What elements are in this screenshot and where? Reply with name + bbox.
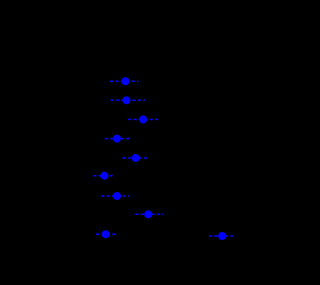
error bar 9 [96,233,118,235]
error bar 10 [209,235,234,237]
error bar 5 [122,157,148,159]
error bar 1 [110,80,138,82]
data point marker 1 [121,77,129,85]
data point marker 10 [218,232,226,240]
data point marker 7 [113,192,121,200]
error bar 7 [101,195,130,197]
data point marker 8 [144,210,152,218]
error bar 6 [93,175,114,177]
data point marker 3 [139,115,147,123]
error bar 2 [111,99,146,101]
data point marker 9 [102,230,110,238]
data point marker 5 [132,154,140,162]
data point marker 4 [113,135,121,143]
error bar 3 [128,118,159,120]
error bar 8 [135,213,163,215]
error bar 4 [105,138,130,140]
data point marker 6 [100,172,108,180]
data point marker 2 [123,96,131,104]
